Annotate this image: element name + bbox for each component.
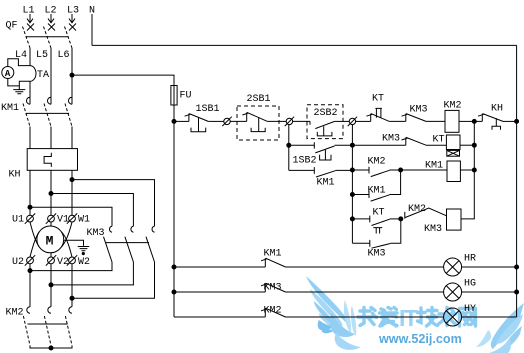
KM3 aux NO contact row1 [402, 114, 427, 122]
wire KM1 aux to rail [335, 169, 352, 171]
KM2 linkage [28, 323, 68, 325]
wire contact to lamp HY [286, 316, 444, 318]
wire W2 lead crossing [61, 232, 72, 257]
watermark char ai [380, 308, 398, 327]
breaker QF pole blade at x=30 [23, 27, 31, 49]
node control tap on L6 [70, 73, 74, 77]
wire motor frame to ground [64, 240, 84, 246]
svg-text:KT: KT [373, 208, 385, 219]
wire lamp HR to right rail [462, 266, 517, 268]
svg-text:KM3: KM3 [410, 105, 428, 116]
wire N horizontal to right rail [92, 44, 517, 46]
breaker QF pole X contact at x=72 [69, 24, 76, 31]
node tap L4 to KM3 [28, 205, 32, 209]
lamp row HR: node left rail [172, 265, 176, 269]
KM3 blade at x=112 [104, 237, 113, 262]
KM1 linkage [26, 112, 69, 114]
wire KM3 pole2 to V2 [51, 262, 133, 285]
wire V1 lead [50, 222, 52, 226]
KM3 aux contact row4b [370, 240, 391, 248]
wire row4b [352, 242, 369, 244]
QF mechanical linkage [27, 36, 69, 38]
terminal T2 [286, 118, 292, 124]
svg-text:IT: IT [399, 305, 418, 331]
wire KM2 coil to rail [459, 120, 474, 122]
wire control feed [72, 75, 174, 85]
svg-text:1SB1: 1SB1 [196, 104, 220, 115]
pushbutton 2SB1 contact [242, 112, 267, 121]
svg-text:L6: L6 [58, 50, 70, 61]
pushbutton 2SB1 dashed enclosure [237, 106, 279, 140]
wire L5 from QF to KM1 [50, 48, 52, 104]
pushbutton 1SB2 NO contact [314, 142, 334, 153]
wire T1 to 2SB1 [230, 120, 247, 122]
KM1 fixed contact arc at x=72 [69, 97, 72, 104]
svg-text:L4: L4 [15, 50, 27, 61]
node right rail HG [515, 290, 519, 294]
wire L6 tap to KM3 pole3 [72, 180, 155, 227]
wire KM2 shorting bus [30, 346, 72, 349]
wire to 1SB2 [289, 144, 315, 146]
watermark char shu [439, 308, 456, 326]
wire L6 KH to W1 [71, 170, 73, 215]
terminal T3 [349, 118, 355, 124]
wire left rail to KM3 contact [174, 291, 265, 293]
KM3 aux NO contact row2 [402, 137, 427, 145]
KM3 aux NO contact lamp row [261, 283, 286, 292]
svg-text:HG: HG [464, 279, 476, 290]
wire row4 [352, 218, 369, 220]
wire phase x=51 KM1 to KH [50, 127, 52, 149]
wire KH to N rail [503, 120, 517, 122]
node rail T3 row2 [350, 143, 354, 147]
wire L5 tap to KM3 pole2 [51, 194, 133, 227]
KM1 fixed contact arc at x=51 [48, 97, 51, 104]
svg-text:KM1: KM1 [368, 186, 386, 197]
watermark char wo [358, 308, 377, 326]
wire L4 KH to U1 [29, 170, 31, 215]
wire ammeter top loop [8, 59, 30, 67]
node N rail KH [515, 119, 519, 123]
svg-text:KM2: KM2 [368, 157, 386, 168]
wire coil return rail [461, 121, 474, 218]
wire left rail down to lamp rows [173, 121, 175, 317]
contactor coil KM1 [447, 161, 460, 182]
node coil rail row3 [472, 168, 476, 172]
svg-text:KM1: KM1 [1, 103, 19, 114]
wire N vertical drop [91, 14, 93, 45]
ground symbol at motor [78, 247, 90, 251]
wire lamp HY to right rail [462, 316, 517, 318]
1SB2 actuator [320, 150, 331, 160]
wire left rail to KM1 contact [174, 266, 265, 268]
svg-text:U1: U1 [12, 215, 24, 226]
wire T2 to 2SB2 [293, 120, 310, 122]
node right rail HR [515, 265, 519, 269]
wire V2 to KM2 [50, 264, 52, 307]
KM1 blade at x=72 [65, 104, 72, 127]
KM3 fixed contact arc at x=112 [110, 226, 112, 232]
time relay coil KT [446, 135, 460, 150]
wire W1 lead crossing [61, 222, 72, 247]
watermark char wang [460, 309, 476, 327]
svg-text:KM3: KM3 [424, 224, 442, 235]
wire left rail to KM2 contact [174, 316, 265, 318]
pushbutton 1SB1 contact [185, 114, 209, 122]
svg-text:KM1: KM1 [425, 161, 443, 172]
KT delay mark row4 [373, 228, 382, 234]
node rail T3 row3b [350, 193, 354, 197]
thermal overload relay KH box [27, 149, 77, 171]
svg-text:A: A [5, 69, 11, 79]
motor M circle [37, 226, 64, 253]
pushbutton 2SB2 dashed enclosure [307, 105, 343, 139]
KM2 blade at x=30 [23, 316, 30, 346]
svg-text:KH: KH [9, 170, 21, 181]
node tap L6 to KM3 [70, 178, 74, 182]
svg-text:L5: L5 [36, 50, 48, 61]
wire lamp HG to right rail [462, 291, 517, 293]
svg-text:TA: TA [37, 70, 49, 81]
svg-text:KM3: KM3 [382, 133, 400, 144]
node W2 junction [70, 296, 74, 300]
terminal T1 [224, 118, 230, 124]
svg-text:KM3: KM3 [87, 228, 105, 239]
wire KT coil to rail [460, 144, 474, 146]
wire W2 to KM2 [71, 264, 73, 307]
wire V2 lead [50, 253, 52, 257]
wire to node [390, 169, 401, 171]
KM2 aux NC contact row3 [369, 167, 390, 177]
KM3 fixed contact arc at x=154.5 [152, 226, 154, 232]
wire row3b to connector [390, 170, 401, 195]
wire row3b [352, 194, 369, 196]
wire L6 from QF to KM1 [71, 48, 73, 104]
svg-text:KM3: KM3 [368, 249, 386, 260]
KM3 fixed contact arc at x=133.4 [131, 226, 133, 232]
wire to KM1 aux [289, 169, 315, 171]
svg-text:FU: FU [180, 91, 192, 102]
svg-text:KM1: KM1 [317, 178, 335, 189]
node KM2 bus [49, 346, 53, 350]
svg-text:2SB2: 2SB2 [314, 108, 338, 119]
indicator lamp HG [444, 283, 462, 301]
svg-text:W2: W2 [78, 257, 90, 268]
KT coil delay element [447, 150, 460, 156]
indicator lamp HY [444, 308, 462, 326]
pushbutton 2SB2 contact [310, 121, 335, 128]
wire L4 from QF through TA to KM1 [29, 48, 31, 104]
wire 2SB2 to terminal [335, 120, 350, 122]
node rail T3 row4 [350, 217, 354, 221]
ammeter A circle [2, 67, 14, 79]
2SB2 actuator [317, 126, 332, 136]
svg-text:KT: KT [433, 135, 445, 146]
watermark wings and site text [306, 276, 524, 353]
1SB1 actuator [191, 118, 206, 132]
wire contact to lamp HG [286, 291, 444, 293]
svg-text:HY: HY [464, 304, 476, 315]
wire row4b connector [390, 219, 401, 243]
wire phase x=30 KM1 to KH [29, 127, 31, 149]
KM1 fixed contact arc at x=30 [27, 97, 30, 104]
svg-text:1SB2: 1SB2 [293, 156, 317, 167]
wire 2SB1 to terminal [267, 120, 286, 122]
svg-text:L3: L3 [67, 6, 79, 17]
wire rail to KH [474, 120, 482, 122]
terminal circle top at x=30 [27, 215, 34, 222]
KH actuator [492, 118, 501, 130]
wire row2 [352, 144, 405, 146]
wire L5 KH to V1 [50, 170, 52, 215]
breaker QF pole X contact at x=51 [48, 24, 55, 31]
node U2 junction [28, 269, 32, 273]
wire branch rail under T3 [351, 125, 353, 244]
svg-text:KH: KH [491, 104, 503, 115]
breaker QF pole blade at x=51 [44, 27, 52, 49]
svg-text:KM1: KM1 [264, 248, 282, 259]
wire branch rail under T2 [288, 125, 290, 171]
watermark char ji [418, 308, 438, 327]
wire incoming phase at x=72 with arrowhead [69, 14, 75, 23]
KM1 blade at x=51 [44, 104, 51, 127]
wire KM3 pole1 to U2 [30, 262, 112, 271]
KM3 linkage [106, 242, 149, 244]
terminal circle top at x=51 [48, 215, 55, 222]
KT delayed NC contact row1 [366, 114, 389, 122]
node coil rail row2 [472, 143, 476, 147]
svg-text:www.52ij.com: www.52ij.com [378, 332, 462, 346]
KM2 aux contact row4 [405, 208, 447, 219]
wire KM3 pole3 to W2 [72, 262, 155, 298]
fuse FU [171, 86, 177, 106]
node coil rail top [472, 119, 476, 123]
KM1 aux NO contact lamp row [261, 258, 286, 267]
wire row3 [352, 169, 369, 171]
KT delayed NO contact row4 [370, 216, 390, 226]
wire 1SB1 to terminal [208, 120, 224, 122]
node rail T3 row3 [350, 168, 354, 172]
svg-text:KM2: KM2 [6, 308, 24, 319]
svg-text:2SB1: 2SB1 [247, 94, 271, 105]
current transformer TA arc on L4 [30, 66, 36, 82]
svg-text:M: M [46, 233, 54, 248]
node tap L5 to KM3 [49, 192, 53, 196]
wire contact to lamp HR [286, 266, 444, 268]
svg-text:U2: U2 [12, 257, 24, 268]
wire U2 to KM2 [29, 264, 31, 307]
node V2 junction [49, 283, 53, 287]
KH heater element [44, 153, 51, 167]
2SB1 actuator [251, 117, 265, 132]
wire KM3 aux to KM2 coil [426, 120, 445, 122]
wire T3 to KT contact [356, 120, 371, 122]
KT delay mark [375, 108, 382, 117]
terminal circle bottom at x=72 [69, 257, 76, 264]
breaker QF pole blade at x=72 [65, 27, 73, 49]
node branch 1SB2 [287, 143, 291, 147]
KM1 blade at x=30 [23, 104, 30, 127]
KM2 blade at x=51 [44, 316, 51, 346]
node row3 parallel join [399, 168, 403, 172]
KH NC contact [478, 114, 503, 122]
wire incoming phase at x=51 with arrowhead [48, 14, 54, 23]
ground symbol at ammeter [13, 86, 25, 94]
svg-text:V2: V2 [57, 257, 69, 268]
svg-text:L1: L1 [23, 6, 35, 17]
KM1 aux NO contact selfhold [314, 167, 335, 177]
wire U1 lead crossing [30, 222, 39, 247]
KM2 fixed contact arc at x=30 [27, 307, 30, 313]
wire right rail N [516, 45, 518, 317]
wire incoming phase at x=30 with arrowhead [27, 14, 33, 23]
KM3 blade at x=154.5 [146, 237, 155, 262]
KM2 fixed contact arc at x=51 [48, 307, 51, 313]
contactor coil KM3 [447, 209, 462, 230]
node row4 [399, 217, 403, 221]
KM2 fixed contact arc at x=72 [69, 307, 72, 313]
svg-text:KT: KT [372, 94, 384, 105]
wire U2 lead crossing [30, 232, 39, 257]
svg-text:KM2: KM2 [408, 204, 426, 215]
node FU bottom [172, 119, 176, 123]
lamp row HG: node left rail [172, 290, 176, 294]
svg-text:QF: QF [6, 21, 18, 32]
terminal circle bottom at x=51 [48, 257, 55, 264]
wire KT to KM3 aux [389, 120, 406, 122]
wire ammeter bottom loop [8, 79, 30, 86]
wire phase x=72 KM1 to KH [71, 127, 73, 149]
svg-text:KM2: KM2 [444, 101, 462, 112]
KM1 aux contact row3b [369, 191, 390, 201]
breaker QF pole X contact at x=30 [27, 24, 34, 31]
wire to KT coil [426, 144, 446, 146]
svg-text:W1: W1 [78, 215, 90, 226]
terminal circle bottom at x=30 [27, 257, 34, 264]
wire row4 to node [390, 218, 401, 220]
wire rail to 1SB1 [174, 120, 189, 122]
KM3 blade at x=133.4 [125, 237, 133, 262]
wire node to KM1 coil [401, 169, 447, 171]
KM2 aux NO contact lamp row [261, 308, 286, 317]
contactor coil KM2 [445, 110, 459, 132]
KM2 blade at x=72 [65, 316, 72, 346]
wire KM1 coil to rail [460, 169, 474, 171]
terminal circle top at x=72 [69, 215, 76, 222]
indicator lamp HR [444, 258, 462, 276]
wire 1SB2 to rail [335, 144, 353, 146]
svg-text:HR: HR [464, 254, 476, 265]
wire L4 tap to KM3 pole1 [30, 207, 112, 226]
